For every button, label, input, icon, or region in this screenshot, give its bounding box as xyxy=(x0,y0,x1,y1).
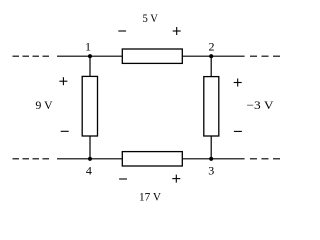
svg-text:3: 3 xyxy=(208,163,214,177)
svg-text:17 V: 17 V xyxy=(139,189,161,203)
svg-text:2: 2 xyxy=(209,39,215,53)
svg-text:5 V: 5 V xyxy=(143,11,159,25)
svg-text:−3 V: −3 V xyxy=(247,98,274,112)
svg-text:4: 4 xyxy=(86,163,92,177)
svg-text:1: 1 xyxy=(85,39,91,53)
svg-text:9 V: 9 V xyxy=(35,98,53,112)
